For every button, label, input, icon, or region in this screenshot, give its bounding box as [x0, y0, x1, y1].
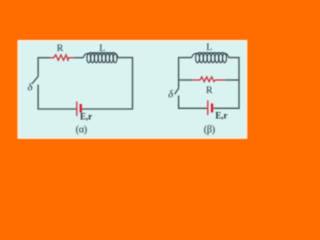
wire: battery to bottom-left corner up to switch (circuit a) [38, 85, 76, 109]
svg-text:(α): (α) [76, 124, 87, 135]
svg-text:E,r: E,r [215, 110, 227, 120]
wire: inductor to top-right corner down right side (circuit b) [213, 58, 239, 109]
svg-text:L: L [99, 43, 105, 54]
wire: left vertical switch upper stub (circuit b) [178, 80, 180, 88]
svg-text:R: R [57, 43, 64, 54]
switch blade (circuit b) [175, 88, 179, 94]
inductor L (circuit a) [83, 53, 118, 63]
switch blade (circuit a) [32, 76, 38, 84]
battery E,r (circuit a): short plate [80, 104, 82, 113]
resistor R (circuit a) [50, 55, 74, 60]
svg-text:R: R [206, 85, 213, 96]
wire: inductor to right side down to battery (circuit a) [82, 58, 133, 109]
battery E,r (circuit b): short plate [211, 104, 213, 113]
battery E,r (circuit b): long plate [207, 100, 208, 115]
background panel [18, 41, 246, 138]
inductor L (circuit b) [192, 52, 229, 62]
wire: middle branch right lead (circuit b) [226, 79, 239, 81]
battery E,r (circuit a): long plate [76, 102, 77, 117]
svg-text:(β): (β) [204, 125, 215, 136]
resistor R (circuit b) [192, 77, 226, 82]
wire: middle branch left lead (circuit b) [179, 79, 192, 81]
wire: switch lower stub to bottom-left corner to battery (circuit b) [179, 96, 208, 109]
svg-text:E,r: E,r [80, 112, 92, 122]
wire: circuit (b) left vertical, middle junction up to top-left corner, to inductor [179, 58, 192, 80]
wire: resistor to inductor (circuit a) [74, 57, 84, 59]
wire: circuit (a) left top segment, top-left corner to resistor [38, 58, 50, 76]
svg-text:L: L [206, 42, 212, 53]
